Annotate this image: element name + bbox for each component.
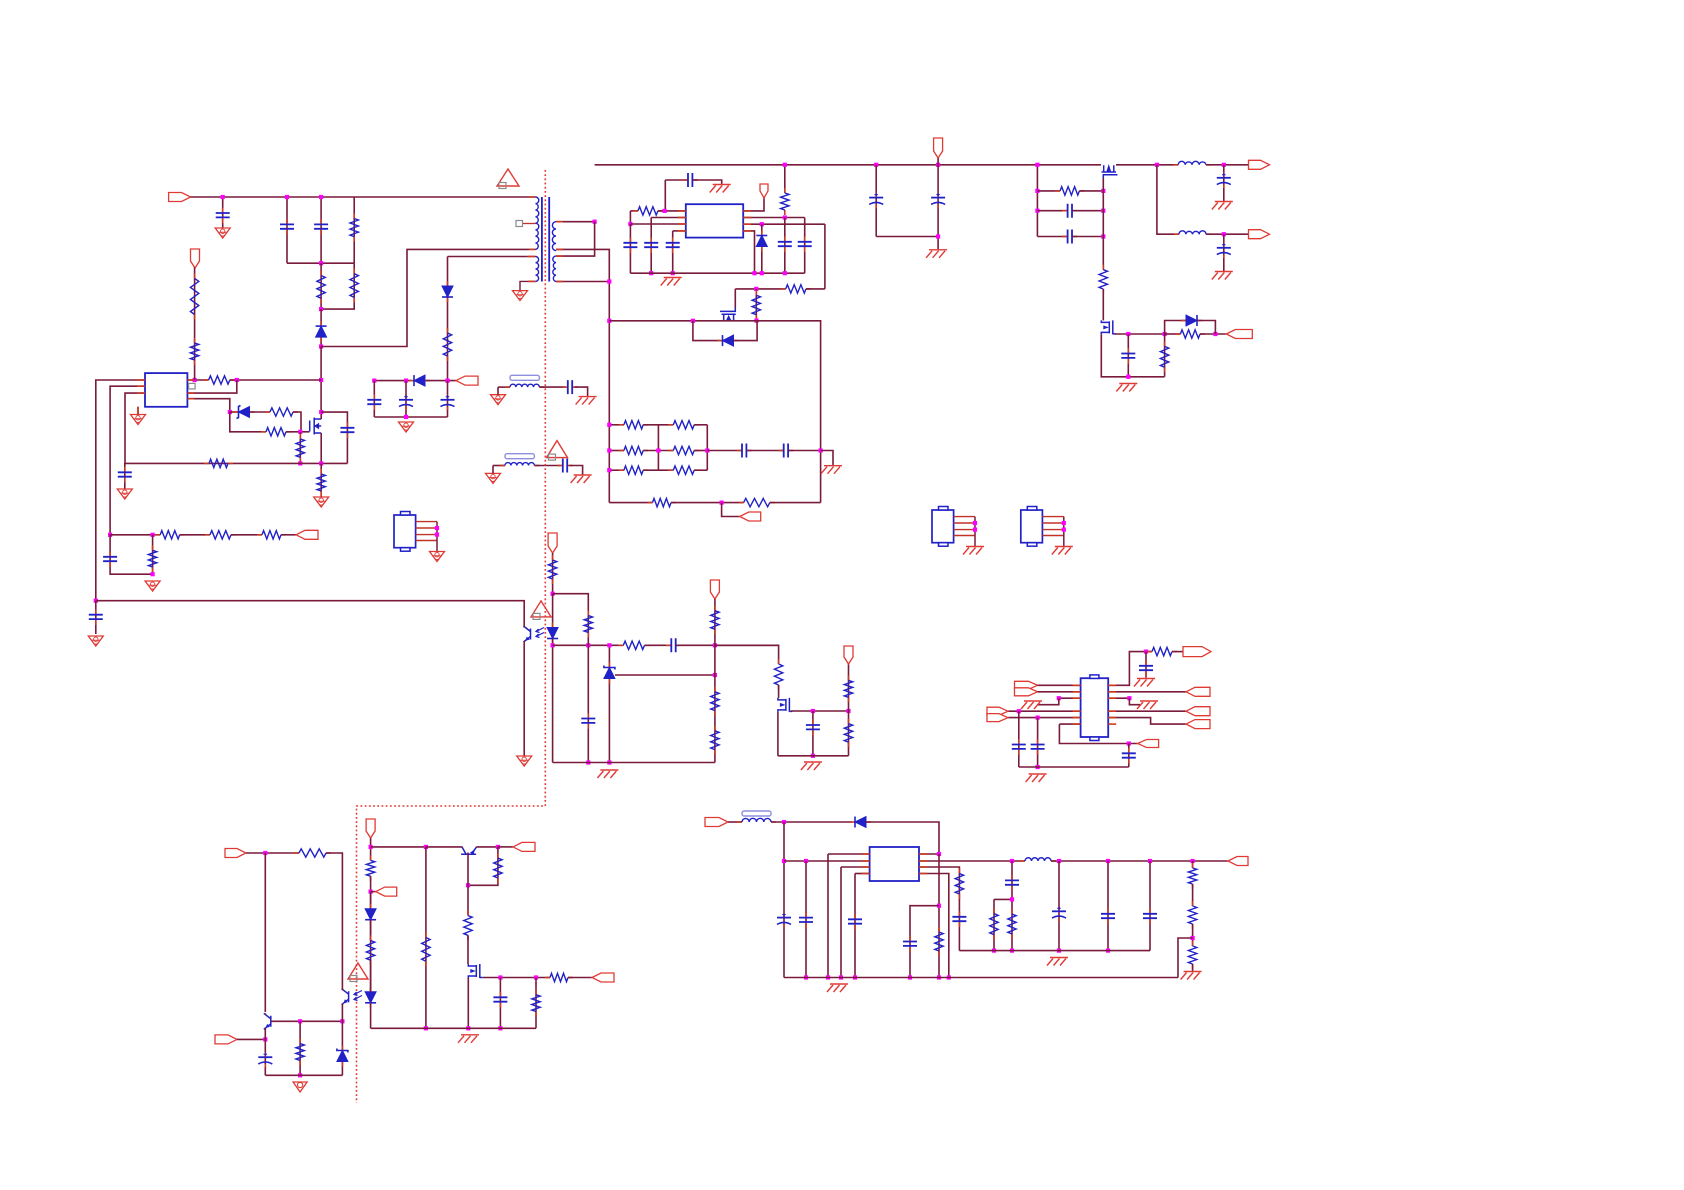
u5 left pin rows — [784, 860, 870, 862]
u6 pin4 row — [1008, 710, 1081, 712]
ground — [215, 228, 230, 238]
resistor R20 — [714, 726, 716, 731]
wire U1 cs pin — [187, 399, 229, 412]
capacitor C38 — [499, 978, 501, 1029]
resistor R35 — [1192, 941, 1194, 946]
capacitor C31 — [1107, 909, 1109, 914]
connector HV start — [191, 249, 200, 268]
transistor Q7 top fet — [1102, 165, 1118, 179]
opto U2 phototransistor — [524, 626, 531, 642]
transistor Q2 bjt — [264, 1013, 271, 1029]
wire source row — [125, 462, 347, 464]
connector OUT2 — [1249, 230, 1270, 239]
emitter branch C37 — [264, 1028, 266, 1075]
connector VCC2 — [760, 184, 768, 198]
wire fb row — [553, 644, 624, 646]
ladder row — [609, 424, 624, 426]
S1 top lead — [556, 221, 595, 223]
comp branch — [994, 898, 1012, 900]
capacitor C10 — [854, 914, 856, 919]
resistor Rdis1 — [353, 197, 355, 263]
capacitor C11 — [909, 936, 911, 941]
ground CY — [574, 474, 592, 476]
ground u5 — [830, 983, 848, 985]
bottom wire — [265, 1074, 342, 1076]
u5 right pins — [919, 853, 939, 855]
wire U1 pin3 — [125, 393, 145, 463]
resistor R34 — [1192, 901, 1194, 906]
resistor R17 / cap C17 branch — [553, 594, 589, 646]
inductor L3 — [737, 821, 742, 823]
connector 12V — [1228, 857, 1248, 866]
u6 pin5 row — [1008, 717, 1081, 719]
connector CN6 — [394, 515, 416, 548]
transistor Q1 main MOSFET — [310, 418, 322, 435]
connector B+ — [934, 138, 943, 158]
ground signal — [293, 1082, 307, 1092]
coupling caps row — [707, 450, 741, 452]
wire divider row — [110, 534, 160, 536]
wire aux top — [448, 256, 528, 258]
zener ZD3 — [341, 1021, 343, 1075]
wire fb gnd bus — [553, 762, 715, 764]
resistor R25 — [633, 210, 638, 212]
resistor R9 — [194, 268, 196, 380]
fb jog — [910, 906, 939, 978]
T1 aux winding — [536, 257, 539, 282]
ground — [145, 581, 160, 591]
ground div — [1184, 971, 1202, 973]
IC U5 buck converter — [870, 847, 919, 881]
U4 right pin3 row — [743, 223, 825, 225]
capacitor C13 pol — [1058, 906, 1060, 911]
wire U1 fb loop — [187, 380, 236, 393]
wire U4 bottom bus — [630, 272, 804, 274]
resistor R22 — [848, 711, 850, 756]
divider right — [1192, 861, 1194, 868]
resistor R33 — [1192, 863, 1194, 868]
ground — [517, 756, 532, 766]
resistor R40 — [370, 936, 372, 941]
gate row — [483, 977, 550, 979]
wire xcap bottom — [287, 262, 354, 264]
connector OUT1 — [1249, 160, 1270, 169]
resistor R14 — [152, 535, 154, 574]
capacitor C35 — [1128, 748, 1130, 753]
nc pin box — [189, 383, 196, 389]
capacitor C_sn — [346, 423, 348, 428]
inductor L2 — [1174, 233, 1179, 235]
capacitor C7 — [1127, 334, 1129, 377]
node zener loop — [228, 410, 232, 414]
wire loop left — [230, 412, 266, 432]
opto U7 phototransistor — [342, 989, 349, 1005]
capacitor C26 — [784, 218, 786, 274]
resistor R21 — [778, 659, 780, 664]
resistor R8 — [261, 431, 266, 433]
ground ladder — [824, 465, 842, 467]
ground bulk — [929, 249, 947, 251]
capacitor C28 — [737, 450, 742, 452]
opto2 light arrows — [354, 991, 362, 996]
u6 pin3 gnd — [1059, 697, 1081, 699]
capacitor C_cs — [124, 463, 126, 489]
wire U1 pin2 bus — [110, 386, 145, 535]
base row — [271, 1020, 343, 1022]
capacitor C5 — [1037, 210, 1067, 212]
ground — [804, 761, 822, 763]
capacitor CX2 — [320, 197, 322, 263]
diode D2 — [447, 257, 449, 381]
capacitor C12 — [958, 912, 960, 917]
connector P2 — [1186, 687, 1210, 696]
resistor R10 — [194, 338, 196, 343]
ladder verticals — [657, 425, 659, 470]
wire to primary return — [321, 249, 529, 346]
op-amp U1 PWM controller — [145, 373, 187, 407]
U4 pin2 row / C24 — [651, 217, 686, 219]
ladder row — [609, 469, 624, 471]
q8 out row — [1115, 333, 1165, 335]
capacitor CX1 — [286, 197, 288, 263]
resistor R_cs — [204, 462, 209, 464]
ground u6c — [1137, 678, 1155, 680]
capacitor C2 bulk — [937, 165, 939, 237]
resistor R39 — [370, 855, 372, 860]
sense rail — [959, 950, 1150, 952]
gate ladder left — [1036, 165, 1038, 237]
diode D7 — [370, 892, 372, 909]
resistor R5 — [938, 927, 940, 932]
capacitor C25 — [672, 238, 674, 243]
zener ZD1 — [230, 411, 238, 413]
u6 right pin3 gnd — [1108, 697, 1129, 699]
cap C30 + R32 — [1011, 861, 1013, 951]
S2 top lead — [556, 222, 595, 256]
connector IN3 — [215, 1035, 237, 1044]
resistor R_gs — [299, 432, 301, 464]
gate row — [735, 288, 785, 290]
warning triangle T1 — [497, 169, 519, 186]
u6 bottom bus — [1019, 766, 1129, 768]
ground CY — [579, 396, 597, 398]
u6 left connectors — [1015, 681, 1038, 689]
connector CN4 — [932, 510, 954, 543]
wire AC rail — [191, 196, 529, 198]
diode D_clamp — [320, 309, 322, 346]
capacitor C16 — [666, 644, 671, 646]
u6 right pin4 — [1108, 710, 1186, 712]
gnd stub — [821, 451, 833, 466]
wire U1 gnd pin — [137, 407, 139, 415]
capacitor C9 — [805, 912, 807, 917]
LED of opto U2 — [552, 623, 554, 628]
ground — [399, 422, 414, 432]
ground u6b — [1029, 773, 1047, 775]
connector 5V — [844, 646, 853, 664]
resistor R44 — [545, 977, 550, 979]
capacitor CY1 — [539, 386, 565, 388]
caps under u6 — [1018, 711, 1020, 767]
resistor R_s sense — [320, 463, 322, 497]
connector OUT3 — [513, 842, 535, 851]
wire long fb bus — [96, 601, 524, 628]
resistor R45 — [535, 978, 537, 1029]
resistor R3 — [1175, 333, 1180, 335]
connector VS — [710, 580, 719, 599]
connector HV — [296, 530, 318, 539]
capacitor CY2 — [534, 465, 560, 467]
wire fb down — [824, 224, 826, 289]
diode D3 — [409, 380, 414, 382]
u6 right pin2 — [1108, 691, 1186, 693]
connector VCC — [456, 376, 478, 385]
output caps — [1058, 861, 1060, 951]
wire bulk bottom — [876, 237, 938, 250]
capacitor C4 — [1223, 234, 1225, 271]
capacitor C33 — [1018, 739, 1020, 744]
connector OUT4 — [592, 973, 614, 982]
zener TL431 U3 — [608, 645, 610, 762]
top rail — [595, 164, 1101, 166]
u6 right pin5 — [1108, 718, 1186, 725]
ground out2 — [1215, 271, 1233, 273]
resistor R2 — [1102, 265, 1104, 270]
T1 secondary S2 — [553, 256, 556, 281]
source rail — [609, 321, 820, 503]
transistor Q6 fet — [720, 307, 736, 321]
resistor R6 — [958, 869, 960, 874]
inductor L_f2 — [486, 473, 501, 483]
wire U1 pin1 bus — [96, 380, 145, 601]
T1 primary winding — [536, 197, 539, 249]
wire cap bottom bus — [374, 416, 447, 418]
connector CTRL — [1226, 330, 1252, 339]
resistor R12 — [205, 534, 210, 536]
U4 right pin2 row — [743, 217, 805, 219]
capacitor C20 — [405, 381, 407, 417]
fet source vertical — [1102, 178, 1104, 270]
cap C8 — [783, 822, 785, 978]
wire snubber — [321, 412, 347, 463]
resistor Rdis3 — [321, 263, 354, 309]
capacitor C32 — [1149, 909, 1151, 914]
zener ZD2 — [761, 224, 763, 273]
bottom bus — [784, 977, 1178, 979]
connector IN2 — [225, 849, 246, 858]
opto light arrows — [536, 628, 544, 633]
resistor R13 — [257, 534, 262, 536]
wire to fet — [715, 645, 779, 664]
capacitor C_in1 — [222, 197, 224, 228]
u6 right pin1 — [1108, 652, 1152, 686]
bottom row resistors — [609, 502, 652, 504]
U4 pin4 row / C25 — [673, 230, 686, 232]
capacitor C21 — [447, 381, 449, 417]
S2 bottom lead — [556, 281, 609, 283]
ground stb — [461, 1034, 479, 1036]
capacitor C3 — [1223, 165, 1225, 201]
resistor R18 — [714, 606, 716, 611]
capacitor C34 — [1037, 739, 1039, 744]
ground aux — [513, 291, 528, 301]
resistor R16 — [618, 644, 623, 646]
ground U4 — [664, 277, 682, 279]
ground — [713, 184, 731, 186]
ground u6d — [1140, 700, 1158, 702]
capacitor C15 — [95, 601, 97, 634]
U4 right pin1 connector — [743, 197, 764, 211]
resistor R11 — [155, 534, 160, 536]
resistor R15 — [552, 555, 554, 560]
capacitor C27 — [804, 218, 806, 274]
connector VIN — [705, 818, 728, 827]
IC U4 snubber/regulator — [686, 204, 743, 237]
wire bottom — [778, 755, 849, 757]
vcc cap row — [374, 380, 412, 382]
transistor Q3 pnp — [461, 847, 476, 854]
resistor Rdis2 — [320, 263, 322, 309]
resistor Rg — [204, 379, 209, 381]
wire U1 out — [187, 379, 208, 381]
capacitor C14 — [110, 535, 153, 574]
warning triangle Y — [547, 441, 568, 458]
sense row — [919, 867, 959, 951]
resistor R31 — [993, 909, 995, 914]
T1 core bars — [542, 197, 549, 282]
resistor R38 — [299, 1021, 301, 1075]
IC pin lead stubs — [137, 379, 145, 381]
diode D5 loop — [1165, 321, 1186, 335]
ground out — [1050, 957, 1068, 959]
connector CN5 — [1021, 510, 1043, 543]
resistor R42 — [467, 885, 469, 915]
ground — [600, 769, 618, 771]
ground — [314, 497, 329, 507]
connector FB — [548, 533, 557, 553]
resistor R4 — [1164, 334, 1166, 377]
diode D6 — [850, 821, 855, 823]
resistor R23 upper — [848, 663, 850, 711]
resistor R24 — [447, 328, 449, 333]
capacitor C17 — [587, 713, 589, 718]
resistor R27 — [781, 288, 786, 290]
capacitor C22 top — [665, 179, 687, 181]
U4 pin3 row — [630, 223, 685, 225]
ground u6a — [1024, 700, 1042, 702]
capacitor C6 — [1037, 236, 1067, 238]
U4 right pin4 — [743, 231, 754, 273]
resistor R37 — [294, 852, 299, 854]
resistor R26 from rail — [784, 165, 786, 193]
ground — [88, 636, 103, 646]
ground — [131, 415, 146, 425]
resistor R43 mid — [425, 847, 427, 1028]
ladder row — [609, 450, 624, 452]
IC U6 — [1081, 678, 1109, 737]
capacitor C19 — [373, 381, 375, 417]
output rail — [919, 860, 1025, 862]
en row — [919, 874, 949, 978]
capacitor C29 — [778, 450, 783, 452]
inductor L1 — [1173, 164, 1178, 166]
capacitor C24 — [650, 238, 652, 243]
resistor R41 — [468, 847, 498, 885]
connector P4 — [1186, 720, 1210, 729]
diode D4 — [693, 321, 721, 341]
T1 secondary S1 — [552, 222, 556, 251]
wire ref — [615, 674, 715, 676]
ground — [117, 489, 132, 499]
connector STB2 — [371, 891, 376, 893]
resistor R30 — [739, 502, 744, 504]
resistor R19 — [714, 687, 716, 692]
connector STB — [366, 819, 375, 838]
inductor L4 — [1020, 860, 1025, 862]
transistor Q6 — [734, 289, 736, 308]
connector P1 — [1183, 647, 1211, 657]
warning triangle — [531, 601, 551, 617]
wire fet source row — [791, 710, 849, 712]
transistor Q2 — [264, 853, 266, 1012]
capacitor C23 — [629, 224, 631, 273]
T1 primary tap box — [522, 223, 536, 225]
top row — [371, 846, 426, 848]
second output branch — [1157, 165, 1179, 234]
u6 pin6 under-route — [1059, 723, 1080, 725]
inductor L_f1 — [491, 395, 506, 405]
connector P_IN — [169, 193, 191, 202]
transistor Q8 — [1101, 320, 1116, 334]
resistor R28 — [755, 289, 757, 321]
connector AOUT — [1138, 740, 1159, 748]
ground q8 — [1119, 383, 1137, 385]
bottom bus — [371, 1027, 536, 1029]
base vert — [467, 853, 469, 886]
opto U7 LED — [370, 987, 372, 992]
connector P3 — [1186, 707, 1210, 716]
wire gate vertical — [320, 347, 322, 413]
transistor Q5 small fet — [778, 698, 793, 712]
U4 pin1 row — [630, 210, 638, 212]
capacitor C1 bulk — [875, 165, 877, 237]
capacitor C18 — [812, 711, 814, 756]
resistor R36 — [1147, 651, 1152, 653]
ground out1 — [1215, 201, 1233, 203]
transistor Q4 fet — [468, 964, 483, 978]
cap C36 — [1145, 652, 1147, 678]
resistor R29 — [648, 502, 653, 504]
S1 bottom lead — [556, 249, 609, 502]
fb return — [1178, 938, 1193, 978]
resistor R1 — [1037, 190, 1060, 192]
warning triangle opto2 — [348, 963, 368, 979]
resistor R7 — [265, 411, 270, 413]
connector CN3 — [722, 503, 740, 517]
